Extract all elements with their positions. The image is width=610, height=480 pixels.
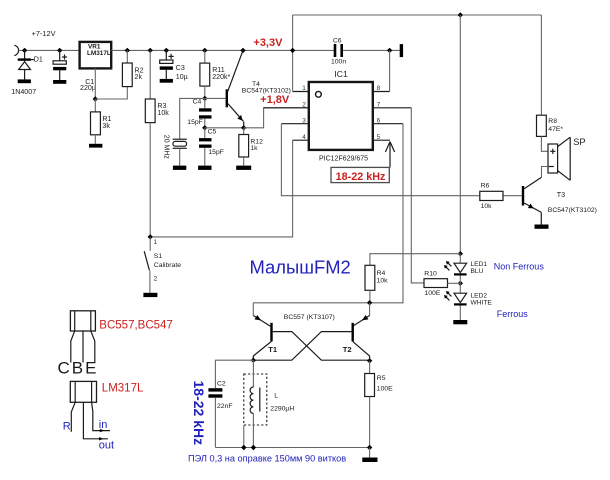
wire LED node to R4	[370, 254, 460, 266]
label R1	[102, 115, 111, 123]
label 100E R5	[377, 386, 393, 393]
svg-text:4: 4	[302, 134, 306, 141]
pin 3	[281, 117, 308, 124]
label R11	[212, 66, 225, 74]
node adj	[93, 96, 98, 101]
wire LED branch from top	[459, 15, 461, 254]
svg-text:100E: 100E	[425, 290, 441, 297]
resistor R3	[145, 99, 155, 123]
wire R1 bottom	[94, 135, 96, 144]
label C2	[217, 381, 226, 388]
wire R1 top	[94, 99, 96, 112]
capacitor C2	[208, 388, 222, 447]
inductor L	[244, 387, 260, 448]
red box 18-22 kHz	[331, 167, 389, 182]
svg-text:C3: C3	[176, 64, 185, 72]
resistor R8	[537, 115, 547, 136]
wire pin3 to R6	[281, 124, 479, 196]
arrow out	[99, 437, 103, 440]
wire VR1 out rail +3.3V	[111, 49, 334, 51]
svg-text:18-22 kHz: 18-22 kHz	[336, 171, 386, 183]
svg-text:SP: SP	[573, 137, 585, 147]
wire R5 bottom	[369, 397, 371, 448]
label S1	[154, 253, 163, 260]
wire pin1 to rail and top wire	[292, 15, 294, 92]
svg-text:C2: C2	[217, 381, 226, 388]
svg-text:T1: T1	[268, 345, 278, 354]
label 220k*	[212, 73, 230, 81]
svg-text:2: 2	[302, 101, 306, 108]
label D1	[34, 56, 43, 64]
node C1 top	[57, 48, 62, 53]
pin 6	[373, 117, 403, 124]
svg-text:C4: C4	[193, 98, 202, 105]
resistor R1	[91, 112, 101, 135]
label in	[99, 419, 108, 431]
svg-text:BC547(KT3102): BC547(KT3102)	[548, 207, 597, 214]
ground below S1	[143, 293, 157, 297]
svg-text:R10: R10	[424, 270, 437, 277]
wire node to crystal	[180, 98, 205, 138]
label 10k (R3)	[157, 109, 169, 117]
label R8	[548, 118, 557, 125]
wire VR1 adj down	[94, 68, 96, 99]
svg-text:3: 3	[302, 117, 306, 124]
wire T1 collector to coil	[252, 360, 254, 387]
svg-text:2290µH: 2290µH	[270, 406, 294, 413]
label MalyshFM2	[250, 257, 351, 278]
wire R3 bottom to S1	[149, 123, 151, 237]
LED2 WHITE	[444, 291, 467, 320]
ground below C1	[53, 80, 66, 84]
node C4/C5	[202, 125, 207, 130]
svg-text:R5: R5	[377, 375, 386, 382]
TO-92 package LM317L	[70, 381, 110, 438]
svg-text:10k: 10k	[481, 203, 493, 210]
label 15pF C4	[187, 119, 203, 126]
svg-text:1k: 1k	[250, 145, 258, 152]
label R5	[377, 375, 386, 382]
ground bottom right	[362, 458, 377, 463]
coil shield dashed box	[244, 374, 267, 425]
svg-text:+1,8V: +1,8V	[260, 94, 290, 106]
svg-text:20 MHz: 20 MHz	[162, 135, 169, 160]
ground below C5	[198, 166, 211, 170]
transistor T3	[503, 167, 548, 225]
svg-text:C6: C6	[333, 38, 342, 45]
label BC547(KT3102) T3	[548, 207, 597, 214]
label IC1	[334, 69, 348, 79]
label PIC12F629/675	[319, 155, 368, 162]
svg-text:in: in	[99, 419, 108, 431]
resistor R11	[200, 63, 210, 86]
wire C4/C5 node to emitter node	[205, 127, 244, 129]
svg-text:15pF: 15pF	[208, 149, 224, 156]
wire LED1 to LED2	[459, 276, 461, 294]
wire R11 top	[204, 50, 206, 63]
label Non Ferrous	[494, 261, 545, 271]
wire pin4 to S1	[150, 140, 292, 237]
pin 5	[373, 134, 390, 141]
svg-text:+3,3V: +3,3V	[253, 37, 283, 49]
svg-text:IC1: IC1	[334, 69, 348, 79]
transistor T2	[253, 303, 369, 361]
node R11 top	[202, 48, 207, 53]
node between LEDs	[458, 281, 463, 286]
label T4	[252, 81, 260, 88]
label C5	[208, 129, 217, 136]
label CBE	[58, 358, 99, 377]
input connector	[14, 45, 18, 55]
regulator VR1 LM317L	[80, 42, 112, 69]
svg-text:10k: 10k	[157, 109, 169, 117]
label BC557 (KT3107)	[284, 314, 335, 321]
svg-text:10k: 10k	[377, 278, 389, 285]
svg-text:Calibrate: Calibrate	[154, 262, 181, 269]
LED1 BLU	[444, 254, 467, 276]
ground below C3	[160, 79, 173, 83]
ground below LED2	[453, 320, 467, 324]
svg-text:D1: D1	[34, 56, 43, 64]
capacitor C5	[199, 128, 212, 166]
resistor R6	[480, 191, 503, 200]
wire tank left branch	[215, 360, 253, 388]
node coil bottom	[251, 445, 256, 450]
label 10k R4	[377, 278, 389, 285]
svg-text:100n: 100n	[331, 58, 346, 65]
ground below crystal	[173, 166, 186, 170]
label R adj	[63, 420, 71, 432]
svg-text:C5: C5	[208, 129, 217, 136]
label T1	[268, 345, 278, 354]
wire pin2 to emitter node	[244, 108, 309, 128]
svg-text:15pF: 15pF	[187, 119, 203, 126]
label BLU	[471, 268, 484, 275]
label R4	[377, 270, 386, 277]
label 22nF	[217, 403, 233, 410]
wire C6 node to pin8	[389, 50, 391, 91]
diode D1	[18, 50, 34, 79]
node C6 right	[387, 48, 392, 53]
transistor T1	[253, 303, 369, 360]
svg-text:ПЭЛ 0,3 на оправке 150мм 90 ви: ПЭЛ 0,3 на оправке 150мм 90 витков	[188, 453, 346, 463]
label L	[274, 392, 278, 399]
node R3 top	[148, 48, 153, 53]
label +7-12V	[32, 29, 56, 38]
label 1k	[250, 145, 258, 152]
node D1 top	[22, 48, 27, 53]
label 100n	[331, 58, 346, 65]
svg-text:R: R	[63, 420, 71, 432]
svg-text:BC557,BC547: BC557,BC547	[99, 320, 173, 332]
TO-92 package BC557/BC547	[70, 311, 95, 363]
svg-text:T2: T2	[343, 345, 352, 354]
svg-text:8: 8	[377, 85, 381, 92]
label R3	[157, 102, 166, 110]
svg-text:100E: 100E	[377, 386, 393, 393]
svg-text:МалышFM2: МалышFM2	[250, 257, 351, 278]
svg-text:LM317L: LM317L	[87, 50, 111, 57]
pin 1	[293, 85, 309, 92]
resistor R2	[122, 63, 132, 87]
label WHITE	[471, 299, 493, 306]
svg-text:220µ: 220µ	[80, 84, 96, 92]
svg-text:LM317L: LM317L	[102, 382, 144, 394]
svg-text:1N4007: 1N4007	[11, 88, 36, 96]
svg-text:R6: R6	[481, 182, 490, 189]
bottom wire	[215, 447, 369, 449]
top +3.3V wire	[293, 14, 542, 16]
label 3k	[102, 122, 110, 130]
svg-text:10µ: 10µ	[176, 73, 188, 81]
node top wire LED branch	[458, 12, 463, 17]
transistor T4	[205, 50, 244, 127]
label BC557,BC547	[99, 320, 173, 332]
node C3 top	[164, 48, 169, 53]
svg-text:PIC12F629/675: PIC12F629/675	[319, 155, 368, 162]
capacitor C6	[334, 44, 400, 57]
pin 2	[264, 101, 309, 108]
svg-text:5: 5	[377, 134, 381, 141]
wire R2 top	[126, 50, 128, 63]
resistor R10	[424, 279, 448, 288]
label LM317L	[102, 382, 144, 394]
label 1N4007	[11, 88, 36, 96]
pin 8	[373, 85, 390, 92]
ground below D1	[18, 79, 31, 83]
svg-text:7: 7	[377, 101, 381, 108]
wire input rail to VR1	[19, 49, 80, 51]
label C4	[193, 98, 202, 105]
resistor R12	[239, 128, 249, 166]
svg-text:Non Ferrous: Non Ferrous	[494, 261, 545, 271]
node R5 bottom	[367, 445, 372, 450]
arrow in	[100, 429, 104, 432]
svg-text:BLU: BLU	[471, 268, 484, 275]
svg-text:S1: S1	[154, 253, 163, 260]
crystal 20 MHz	[173, 139, 187, 165]
wire R8 to speaker	[541, 136, 548, 151]
label +3,3V	[253, 37, 283, 49]
node C4 top	[202, 96, 207, 101]
node T1 collector	[251, 358, 256, 363]
label Calibrate	[154, 262, 181, 269]
label out	[99, 440, 114, 452]
svg-text:R4: R4	[377, 270, 386, 277]
svg-text:R8: R8	[548, 118, 557, 125]
resistor R4	[365, 265, 375, 290]
label 10k R6	[481, 203, 493, 210]
wire R5 top	[369, 361, 371, 374]
svg-text:3k: 3k	[102, 122, 110, 130]
label 20 MHz rotated	[162, 135, 169, 160]
svg-text:+7-12V: +7-12V	[32, 29, 56, 38]
label C1	[85, 78, 94, 86]
ground below T3	[535, 225, 549, 229]
capacitor C1 (electrolytic)	[53, 50, 67, 80]
wire to bottom ground	[369, 448, 371, 458]
ground below R1	[89, 144, 102, 148]
label 18-22 kHz rotated blue	[191, 381, 207, 446]
label Ferrous	[497, 309, 529, 319]
label C3	[176, 64, 185, 72]
node pin1/rail	[290, 48, 295, 53]
wire pin7 to R10	[411, 108, 424, 283]
label BC547(KT3102) T4	[242, 88, 291, 95]
svg-text:1: 1	[302, 85, 306, 92]
wire adj to R2 bottom	[95, 87, 127, 99]
label 2290uH	[270, 406, 294, 413]
node R2 top	[125, 48, 130, 53]
multivibrator emitter rail	[253, 302, 369, 304]
label SP	[573, 137, 585, 147]
resistor R5	[365, 374, 375, 397]
svg-text:18-22 kHz: 18-22 kHz	[191, 381, 207, 446]
svg-text:Ferrous: Ferrous	[497, 309, 529, 319]
label T2	[343, 345, 352, 354]
wire R4 bottom	[369, 290, 371, 303]
annotation arrow pin5	[385, 142, 394, 168]
pin 4	[293, 134, 309, 141]
ground below R12	[236, 166, 251, 170]
svg-text:L: L	[274, 392, 278, 399]
node T4 collector on rail	[240, 48, 245, 53]
label 220u	[80, 84, 96, 92]
label 47E*	[548, 126, 563, 133]
wire pin6 to T2 emitter node	[370, 124, 403, 303]
node coil left bottom	[241, 445, 246, 450]
svg-text:T3: T3	[557, 191, 565, 199]
ground right of C6	[400, 44, 403, 57]
wire R3 top	[149, 50, 151, 99]
label 15pF C5	[208, 149, 224, 156]
label PEL winding note	[188, 453, 346, 463]
label 100E R10	[425, 290, 441, 297]
capacitor C4	[199, 98, 212, 127]
svg-text:WHITE: WHITE	[471, 299, 493, 306]
label R12	[250, 138, 263, 145]
svg-text:22nF: 22nF	[217, 403, 233, 410]
node S1 top	[148, 234, 153, 239]
svg-text:47E*: 47E*	[548, 126, 563, 133]
svg-text:BC557 (KT3107): BC557 (KT3107)	[284, 314, 335, 321]
svg-text:220k*: 220k*	[212, 73, 230, 81]
svg-text:out: out	[99, 440, 114, 452]
svg-text:6: 6	[377, 117, 381, 124]
node LED1 top	[458, 251, 463, 256]
wire R11 bottom	[204, 86, 206, 98]
wire top to R8	[540, 15, 542, 115]
svg-text:CBE: CBE	[58, 358, 99, 377]
label 10u	[176, 73, 188, 81]
label T3	[557, 191, 565, 199]
label C6	[333, 38, 342, 45]
label +1,8V	[260, 94, 290, 106]
wire R10 to LED node	[448, 282, 461, 284]
label LED1	[471, 261, 488, 268]
svg-text:2k: 2k	[135, 73, 143, 81]
IC1 PIC12F629/675	[309, 82, 373, 150]
node emitter rail R4 pin6	[367, 300, 372, 305]
speaker SP	[548, 137, 570, 180]
node T2 collector	[367, 358, 372, 363]
label R10	[424, 270, 437, 277]
label R2	[135, 66, 144, 74]
label R6	[481, 182, 490, 189]
label LED2	[471, 292, 488, 299]
pin 7	[373, 101, 412, 108]
label 2k	[135, 73, 143, 81]
capacitor C3 (electrolytic)	[160, 50, 174, 79]
switch S1	[144, 237, 158, 293]
node emitter/R12	[241, 125, 246, 130]
